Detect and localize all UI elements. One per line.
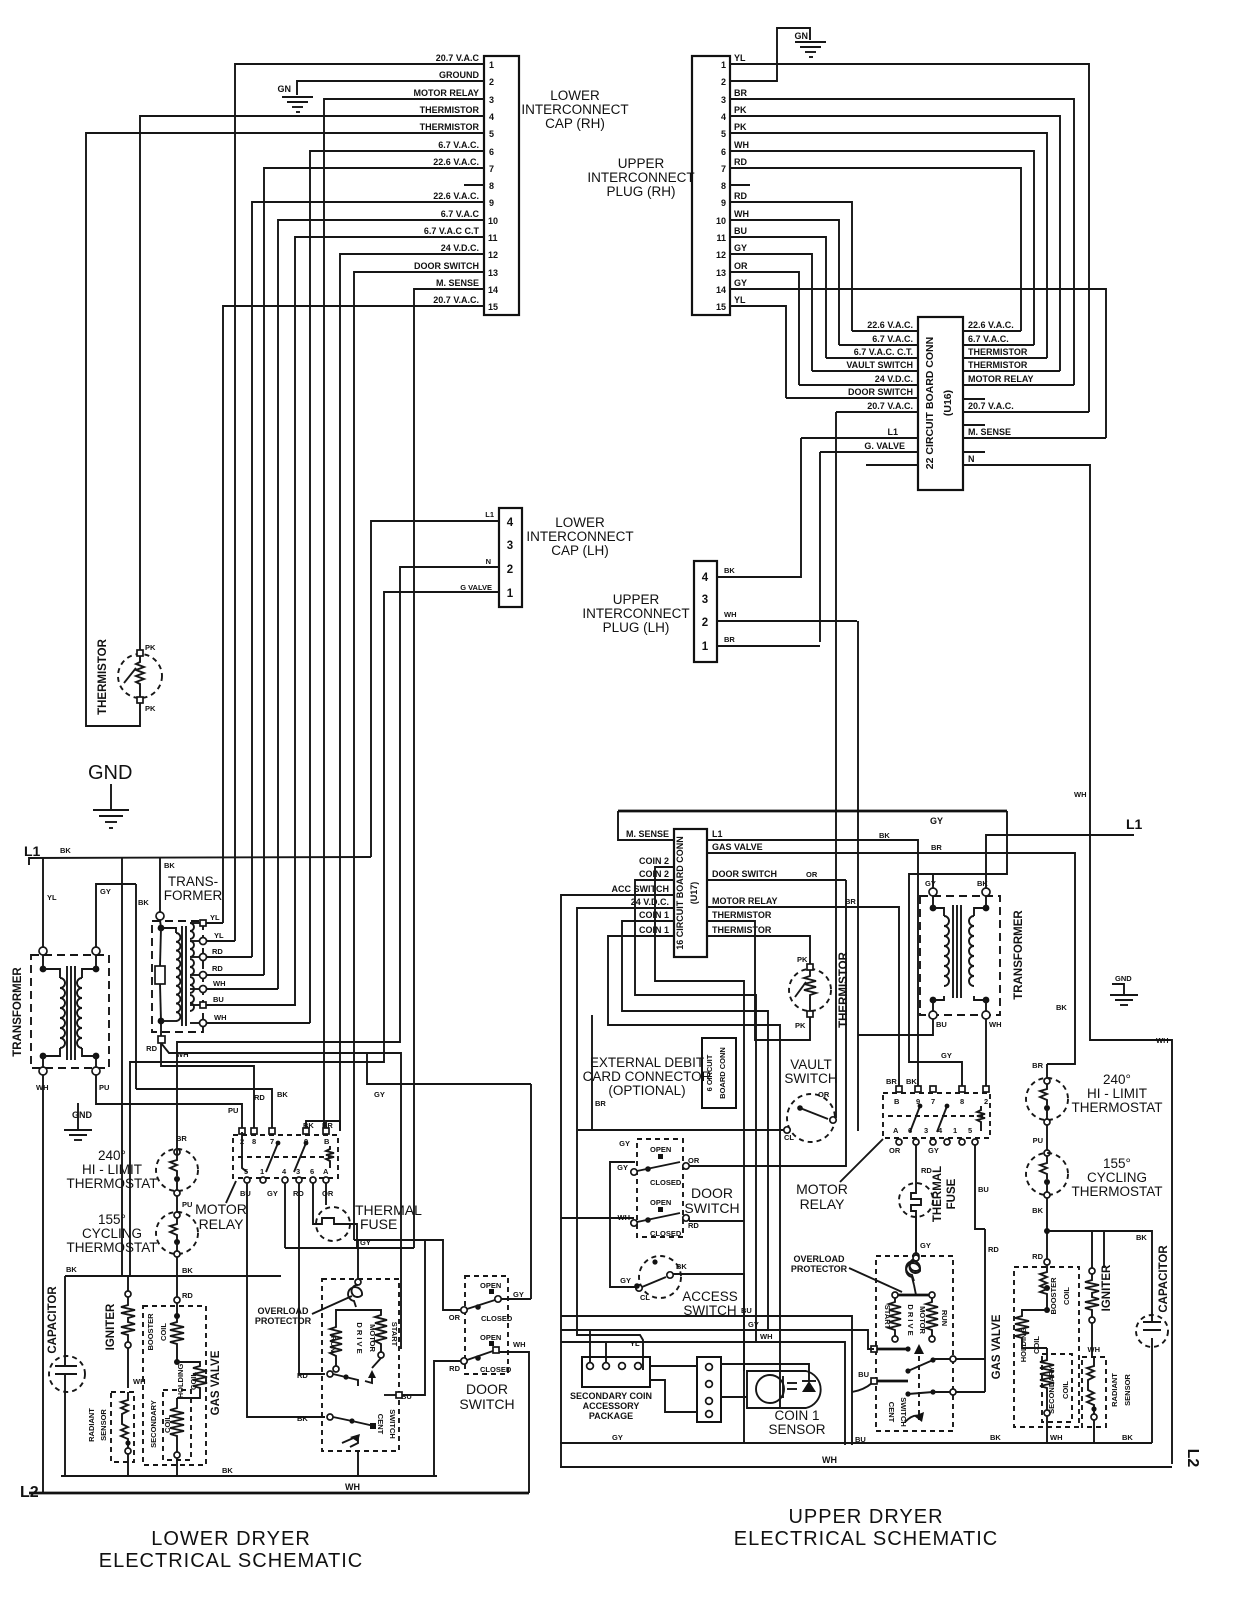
wire J1 pin3 motor relay <box>324 99 484 1131</box>
T2 secondary winding arcs <box>190 923 194 1011</box>
svg-text:THERMISTOR: THERMISTOR <box>712 910 772 920</box>
svg-text:BK: BK <box>724 566 735 575</box>
chain BK RD to gas valve (upper) <box>1032 1198 1050 1267</box>
svg-text:OR: OR <box>734 261 748 271</box>
svg-text:15: 15 <box>716 302 726 312</box>
svg-text:GY: GY <box>734 278 747 288</box>
svg-text:N: N <box>968 454 975 464</box>
svg-text:HI - LIMIT: HI - LIMIT <box>1087 1086 1147 1101</box>
wire J1 pin6 6.7VAC <box>310 151 484 1023</box>
svg-text:HOLDING: HOLDING <box>176 1364 185 1399</box>
svg-text:ELECTRICAL SCHEMATIC: ELECTRICAL SCHEMATIC <box>734 1528 998 1550</box>
svg-text:THERMOSTAT: THERMOSTAT <box>67 1176 158 1191</box>
thermostat 155 CYCLING <box>67 1212 199 1257</box>
svg-text:GN: GN <box>795 31 809 41</box>
svg-text:INTERCONNECT: INTERCONNECT <box>587 170 694 185</box>
svg-text:16 CIRCUIT BOARD CONN: 16 CIRCUIT BOARD CONN <box>675 836 685 950</box>
wire J1 pin5 thermistor <box>86 133 484 726</box>
wire J1 pin9 22.6VAC <box>252 202 484 957</box>
svg-text:RD: RD <box>734 191 747 201</box>
gas valve (lower) <box>143 1306 222 1476</box>
svg-text:TRANS-: TRANS- <box>168 874 218 889</box>
svg-text:6.7 V.A.C.: 6.7 V.A.C. <box>438 140 479 150</box>
wire P1 pin7 RD <box>730 168 1021 331</box>
svg-text:UPPER: UPPER <box>613 592 660 607</box>
svg-text:(OPTIONAL): (OPTIONAL) <box>608 1083 685 1098</box>
svg-text:WH: WH <box>989 1020 1002 1029</box>
svg-text:7: 7 <box>931 1097 935 1106</box>
svg-text:THERMISTOR: THERMISTOR <box>838 951 850 1028</box>
wire P1 pin8 stub <box>730 184 750 186</box>
svg-text:WH: WH <box>1050 1433 1063 1442</box>
svg-text:GY: GY <box>920 1241 931 1250</box>
svg-text:3: 3 <box>489 95 494 105</box>
wire P1 pin2 to ground <box>730 28 810 81</box>
svg-text:CAP (LH): CAP (LH) <box>551 543 609 558</box>
svg-text:OPEN: OPEN <box>650 1145 671 1154</box>
svg-text:4: 4 <box>507 517 514 529</box>
svg-text:CYCLING: CYCLING <box>1087 1170 1147 1185</box>
svg-text:5: 5 <box>968 1126 972 1135</box>
wire T1 GY top right <box>96 884 149 1089</box>
connector P2 UPPER INTERCONNECT PLUG (LH) <box>694 561 717 662</box>
svg-text:BR: BR <box>724 635 735 644</box>
igniter (upper) <box>1085 1231 1113 1357</box>
title UPPER DRYER ELECTRICAL SCHEMATIC <box>734 1506 998 1550</box>
svg-text:UPPER: UPPER <box>618 156 665 171</box>
svg-text:THERMOSTAT: THERMOSTAT <box>1072 1100 1163 1115</box>
svg-text:WH: WH <box>214 1013 227 1022</box>
svg-text:BK: BK <box>906 1077 917 1086</box>
svg-text:BR: BR <box>1032 1061 1043 1070</box>
svg-text:GAS VALVE: GAS VALVE <box>712 842 763 852</box>
wire WH riser from U16 N <box>1074 790 1087 799</box>
U16 right row wires <box>963 331 1172 1464</box>
wire color labels of P1 <box>734 53 749 305</box>
radiant sensor (upper) <box>1082 1357 1132 1443</box>
svg-text:L1: L1 <box>887 427 898 437</box>
bottom rails lower schematic <box>20 1451 529 1501</box>
svg-text:9: 9 <box>721 198 726 208</box>
svg-text:BR: BR <box>176 1134 187 1143</box>
svg-text:240°: 240° <box>1103 1072 1131 1087</box>
svg-text:3: 3 <box>296 1167 300 1176</box>
svg-text:BK: BK <box>1056 1003 1067 1012</box>
motor relay K2 (upper) <box>883 1077 990 1155</box>
wire P1 pin3 BR <box>730 99 1074 385</box>
wire door switch RD out (upper) <box>689 1220 744 1222</box>
wire P1 pin12 GY <box>730 254 812 371</box>
svg-text:1: 1 <box>953 1126 957 1135</box>
wire U16 G.VALVE riser to LH plug BR <box>819 452 821 642</box>
wire chain PU <box>174 1196 192 1218</box>
wire T3 BU WH to relay <box>858 1019 933 1035</box>
svg-text:DOOR: DOOR <box>691 1185 733 1201</box>
svg-text:SECONDARY: SECONDARY <box>1047 1366 1056 1414</box>
svg-text:THERMISTOR: THERMISTOR <box>97 638 109 715</box>
svg-text:13: 13 <box>488 268 498 278</box>
wire P1 pin5 PK <box>730 133 1047 358</box>
svg-text:RELAY: RELAY <box>800 1196 846 1212</box>
door switch S4 (upper) <box>617 1139 739 1238</box>
ground GN at P1 pin2 <box>795 31 827 57</box>
wire U17 COIN1 row b wrap <box>608 936 780 1407</box>
svg-text:GND: GND <box>88 762 132 784</box>
connector J2 LOWER INTERCONNECT CAP (LH) <box>499 508 522 607</box>
wire bus pin12 to relay pin B <box>326 1121 340 1131</box>
label MOTOR RELAY (lower) with pointer <box>195 1181 247 1232</box>
svg-text:D R I V E: D R I V E <box>355 1322 364 1353</box>
wire relay GY output <box>284 1183 286 1248</box>
svg-text:THERMISTOR: THERMISTOR <box>968 360 1028 370</box>
coin 1 sensor <box>650 1357 826 1437</box>
svg-text:SWITCH: SWITCH <box>459 1396 514 1412</box>
overload protector (upper) <box>791 1253 920 1292</box>
svg-text:SWITCH: SWITCH <box>684 1200 739 1216</box>
svg-text:GAS VALVE: GAS VALVE <box>991 1314 1003 1379</box>
svg-text:GAS VALVE: GAS VALVE <box>210 1350 222 1415</box>
secondary coin accessory package <box>570 1339 652 1442</box>
svg-text:1: 1 <box>702 641 709 653</box>
svg-text:THERMOSTAT: THERMOSTAT <box>67 1240 158 1255</box>
svg-text:YL: YL <box>214 931 224 940</box>
svg-text:BK: BK <box>164 861 175 870</box>
svg-text:SWITCH: SWITCH <box>683 1303 736 1318</box>
svg-text:FUSE: FUSE <box>946 1178 958 1209</box>
wire thermal fuse chain (upper) <box>899 1145 958 1251</box>
svg-text:MOTOR RELAY: MOTOR RELAY <box>413 88 479 98</box>
svg-text:RADIANT: RADIANT <box>1110 1373 1119 1407</box>
svg-text:BR: BR <box>734 88 747 98</box>
U16 left row wires <box>786 331 918 465</box>
svg-text:1: 1 <box>721 60 726 70</box>
wire J1 pin12 24VDC <box>340 254 484 1131</box>
svg-text:OR: OR <box>449 1313 461 1322</box>
coin rows BU GY WH <box>561 1218 874 1445</box>
svg-text:OPEN: OPEN <box>480 1281 501 1290</box>
svg-text:GY: GY <box>617 1163 628 1172</box>
node GND (lower schematic) <box>64 1103 93 1140</box>
svg-text:MOTOR: MOTOR <box>796 1181 848 1197</box>
wire J1 pin15 20.7VAC <box>223 306 484 923</box>
svg-text:CAPACITOR: CAPACITOR <box>1158 1245 1170 1313</box>
svg-text:WH: WH <box>345 1482 360 1492</box>
wire door switch GY to access switch <box>610 1162 636 1287</box>
svg-text:SWITCH: SWITCH <box>388 1409 397 1439</box>
svg-text:ACCESSORY: ACCESSORY <box>583 1401 640 1411</box>
wire U17 GAS VALVE BR to right chain <box>707 843 1075 1064</box>
svg-text:THERMISTOR: THERMISTOR <box>712 925 772 935</box>
svg-text:PROTECTOR: PROTECTOR <box>255 1316 312 1326</box>
svg-text:13: 13 <box>716 268 726 278</box>
svg-text:8: 8 <box>252 1137 256 1146</box>
svg-text:MOTOR: MOTOR <box>195 1201 247 1217</box>
wire T2 bottom WH <box>161 1043 401 1349</box>
svg-text:COIL: COIL <box>1062 1287 1071 1305</box>
svg-text:BK: BK <box>879 831 890 840</box>
svg-text:M. SENSE: M. SENSE <box>626 829 669 839</box>
svg-text:24 V.D.C.: 24 V.D.C. <box>631 897 669 907</box>
svg-text:VAULT SWITCH: VAULT SWITCH <box>846 360 913 370</box>
vault switch S2 <box>784 1057 838 1142</box>
svg-text:GY: GY <box>360 1238 371 1247</box>
ground GN at J1 pin2 <box>278 84 314 112</box>
wire J1 pin2 ground <box>297 81 484 95</box>
svg-text:BU: BU <box>858 1370 869 1379</box>
svg-text:6: 6 <box>310 1167 314 1176</box>
svg-text:BK: BK <box>277 1090 288 1099</box>
svg-text:BK: BK <box>182 1266 193 1275</box>
svg-text:L1: L1 <box>712 829 723 839</box>
svg-text:FORMER: FORMER <box>164 888 223 903</box>
svg-text:WH: WH <box>1156 1036 1169 1045</box>
wire L1 rail <box>29 857 371 865</box>
svg-text:BOOSTER: BOOSTER <box>1049 1277 1058 1315</box>
svg-text:SENSOR: SENSOR <box>99 1409 108 1441</box>
label UPPER INTERCONNECT PLUG (RH) <box>587 156 694 199</box>
svg-text:CL: CL <box>640 1293 650 1302</box>
svg-text:GY: GY <box>930 816 943 826</box>
svg-text:PK: PK <box>797 955 808 964</box>
svg-text:GY: GY <box>734 243 747 253</box>
svg-text:MOTOR: MOTOR <box>918 1306 927 1334</box>
svg-text:COIN 2: COIN 2 <box>639 856 669 866</box>
wire J1 pin7 22.6VAC <box>264 168 484 975</box>
svg-text:22 CIRCUIT BOARD CONN: 22 CIRCUIT BOARD CONN <box>924 337 936 469</box>
svg-text:DOOR SWITCH: DOOR SWITCH <box>712 869 777 879</box>
svg-text:SWITCH: SWITCH <box>899 1397 908 1427</box>
svg-text:COIL: COIL <box>1032 1336 1041 1354</box>
svg-text:14: 14 <box>488 285 498 295</box>
transformer T2 body <box>146 857 203 1053</box>
svg-text:9: 9 <box>489 198 494 208</box>
svg-text:YL: YL <box>210 913 220 922</box>
svg-text:INTERCONNECT: INTERCONNECT <box>582 606 689 621</box>
svg-text:YL: YL <box>47 893 57 902</box>
svg-text:4: 4 <box>721 112 726 122</box>
svg-text:PU: PU <box>228 1106 238 1115</box>
wire BU from relay down (upper) <box>975 1145 999 1392</box>
svg-text:7: 7 <box>270 1137 274 1146</box>
wire T1 PU bottom right <box>96 1075 242 1131</box>
wire BK branch to igniter and capacitor <box>1047 1231 1152 1322</box>
svg-text:BK: BK <box>1032 1206 1043 1215</box>
svg-text:15: 15 <box>488 302 498 312</box>
svg-text:D R I V E: D R I V E <box>906 1304 915 1335</box>
gas valve (upper) <box>991 1267 1079 1443</box>
svg-text:155°: 155° <box>1103 1156 1131 1171</box>
svg-text:10: 10 <box>716 216 726 226</box>
svg-text:CLOSED: CLOSED <box>480 1365 512 1374</box>
svg-text:OVERLOAD: OVERLOAD <box>793 1254 845 1264</box>
svg-text:CL: CL <box>784 1133 794 1142</box>
transformer T1 (lower dryer) <box>12 947 109 1075</box>
svg-text:WH: WH <box>734 209 749 219</box>
svg-text:BK: BK <box>297 1414 308 1423</box>
svg-text:COIN 1: COIN 1 <box>639 910 669 920</box>
svg-text:GND: GND <box>72 1110 93 1120</box>
wire BK riser from L1 rail <box>121 858 123 1276</box>
svg-text:WH: WH <box>724 610 737 619</box>
wire vault CL to left <box>578 1129 784 1131</box>
wire U17 DOOR SWITCH row <box>689 870 846 1166</box>
wire J1 pin1 20.7VAC <box>235 64 484 941</box>
svg-text:COIN 2: COIN 2 <box>639 869 669 879</box>
svg-text:3: 3 <box>507 540 513 552</box>
svg-text:GN: GN <box>278 84 292 94</box>
svg-text:BU: BU <box>936 1020 947 1029</box>
svg-text:WH: WH <box>734 140 749 150</box>
label MOTOR RELAY (upper) with pointer <box>796 1139 883 1212</box>
svg-text:CYCLING: CYCLING <box>82 1226 142 1241</box>
svg-text:1: 1 <box>507 588 514 600</box>
wire P1 pin10 WH <box>730 220 839 345</box>
wire U17 MOTOR RELAY row <box>707 897 899 1089</box>
svg-text:GY: GY <box>513 1290 524 1299</box>
svg-text:BOARD CONN: BOARD CONN <box>718 1047 727 1099</box>
svg-text:11: 11 <box>716 233 726 243</box>
svg-text:COIN 1: COIN 1 <box>639 925 669 935</box>
svg-text:WH: WH <box>1074 790 1087 799</box>
svg-text:OR: OR <box>818 1090 830 1099</box>
BK rail upper left of gas valve <box>65 1265 281 1276</box>
svg-text:LOWER: LOWER <box>555 515 605 530</box>
svg-text:LOWER: LOWER <box>550 88 600 103</box>
svg-text:BU: BU <box>741 1306 752 1315</box>
svg-text:BK: BK <box>1122 1433 1133 1442</box>
svg-text:N: N <box>486 557 491 566</box>
svg-text:SECONDARY COIN: SECONDARY COIN <box>570 1391 652 1401</box>
svg-text:10: 10 <box>488 216 498 226</box>
svg-text:RADIANT: RADIANT <box>87 1408 96 1442</box>
svg-text:IGNITER: IGNITER <box>105 1303 117 1350</box>
svg-text:5: 5 <box>489 129 494 139</box>
svg-text:INTERCONNECT: INTERCONNECT <box>526 529 633 544</box>
svg-text:YL: YL <box>734 295 746 305</box>
svg-text:GY: GY <box>619 1139 630 1148</box>
bottom rail L2 (upper) <box>560 1449 1201 1468</box>
connector P1 UPPER INTERCONNECT PLUG (RH) <box>692 56 730 315</box>
svg-text:GY: GY <box>620 1276 631 1285</box>
svg-text:BOOSTER: BOOSTER <box>146 1313 155 1351</box>
svg-text:RD: RD <box>212 964 223 973</box>
svg-text:A: A <box>323 1167 329 1176</box>
thermistor RT1 (lower dryer) <box>97 638 162 715</box>
svg-text:GY: GY <box>748 1320 759 1329</box>
svg-text:PLUG (LH): PLUG (LH) <box>603 620 670 635</box>
svg-text:WH: WH <box>213 979 226 988</box>
svg-text:WH: WH <box>760 1332 773 1341</box>
wire door switch connections (lower) <box>434 1084 531 1493</box>
svg-text:BK: BK <box>222 1466 233 1475</box>
svg-text:L1: L1 <box>485 510 494 519</box>
transformer T2 (lower dryer) label <box>164 861 223 903</box>
svg-text:BK: BK <box>60 846 71 855</box>
svg-text:PLUG (RH): PLUG (RH) <box>606 184 675 199</box>
svg-text:WH: WH <box>513 1340 526 1349</box>
svg-text:4: 4 <box>489 112 494 122</box>
node GND (upper left) <box>88 762 132 828</box>
svg-text:M. SENSE: M. SENSE <box>968 427 1011 437</box>
svg-text:OR: OR <box>806 870 818 879</box>
svg-text:PK: PK <box>795 1021 806 1030</box>
svg-text:240°: 240° <box>98 1148 126 1163</box>
motor M2 (upper) <box>852 1216 985 1431</box>
svg-text:SECONDARY: SECONDARY <box>149 1400 158 1448</box>
svg-text:INTERCONNECT: INTERCONNECT <box>521 102 628 117</box>
access switch S3 <box>620 1256 744 1443</box>
label UPPER INTERCONNECT PLUG (LH) <box>582 592 689 635</box>
svg-text:7: 7 <box>489 164 494 174</box>
svg-text:8: 8 <box>960 1097 964 1106</box>
wire J1 pin10 6.7VAC <box>278 220 484 989</box>
svg-text:155°: 155° <box>98 1212 126 1227</box>
svg-text:24 V.D.C.: 24 V.D.C. <box>875 374 913 384</box>
svg-text:1: 1 <box>260 1167 264 1176</box>
svg-text:4: 4 <box>702 572 709 584</box>
svg-text:2: 2 <box>984 1097 988 1106</box>
thermistor RT2 (upper) <box>789 951 850 1030</box>
wire U17 COIN1 row a wrap <box>622 921 768 1330</box>
svg-text:DOOR SWITCH: DOOR SWITCH <box>414 261 479 271</box>
svg-text:GY: GY <box>925 879 936 888</box>
svg-text:8: 8 <box>721 181 726 191</box>
svg-text:MOTOR RELAY: MOTOR RELAY <box>968 374 1034 384</box>
svg-text:COIL: COIL <box>163 1415 172 1433</box>
wire U17 COIN2 row b wrap <box>635 880 756 1342</box>
svg-text:CARD CONNECTOR: CARD CONNECTOR <box>583 1069 712 1084</box>
svg-text:GND: GND <box>1115 974 1132 983</box>
wire P1 pin13 OR <box>730 272 799 385</box>
svg-text:7: 7 <box>721 164 726 174</box>
svg-text:3: 3 <box>924 1126 928 1135</box>
radiant sensor (lower) <box>87 1392 134 1476</box>
wire P1 pin9 RD <box>730 202 852 331</box>
svg-text:CAPACITOR: CAPACITOR <box>47 1286 59 1354</box>
svg-text:IGNITER: IGNITER <box>1101 1264 1113 1311</box>
svg-text:12: 12 <box>716 250 726 260</box>
svg-text:GY: GY <box>928 1146 939 1155</box>
wire T3 BK to L1 node <box>986 816 1143 888</box>
svg-text:(U17): (U17) <box>689 882 699 905</box>
svg-text:BR: BR <box>845 897 856 906</box>
svg-text:START: START <box>390 1322 399 1347</box>
label LOWER INTERCONNECT CAP (RH) <box>521 88 628 131</box>
wire L1 to transformer T1 YL <box>42 858 44 948</box>
svg-text:TRANSFORMER: TRANSFORMER <box>12 967 24 1057</box>
svg-text:RD: RD <box>688 1221 699 1230</box>
svg-text:11: 11 <box>488 233 498 243</box>
svg-text:8: 8 <box>489 181 494 191</box>
connector J1 LOWER INTERCONNECT CAP (RH) <box>484 56 519 315</box>
connector 6 CIRCUIT BOARD CONN <box>702 1038 736 1108</box>
svg-text:THERMISTOR: THERMISTOR <box>968 347 1028 357</box>
svg-text:RELAY: RELAY <box>199 1216 245 1232</box>
svg-text:6: 6 <box>721 147 726 157</box>
chain PU label (upper) <box>1033 1125 1050 1156</box>
svg-text:CLOSED: CLOSED <box>650 1178 682 1187</box>
svg-text:6.7 V.A.C C.T: 6.7 V.A.C C.T <box>424 226 480 236</box>
wire U17 THERMISTOR rows to RT2 <box>707 921 810 1040</box>
svg-text:CLOSED: CLOSED <box>481 1314 513 1323</box>
svg-text:6.7 V.A.C. C.T.: 6.7 V.A.C. C.T. <box>854 347 913 357</box>
svg-text:ACCESS: ACCESS <box>682 1289 738 1304</box>
wire WH riser to relay <box>857 621 859 1131</box>
svg-text:THERMISTOR: THERMISTOR <box>420 105 480 115</box>
svg-text:FUSE: FUSE <box>360 1216 397 1232</box>
connector U17 16 CIRCUIT BOARD CONN <box>674 829 707 957</box>
svg-text:BK: BK <box>66 1265 77 1274</box>
